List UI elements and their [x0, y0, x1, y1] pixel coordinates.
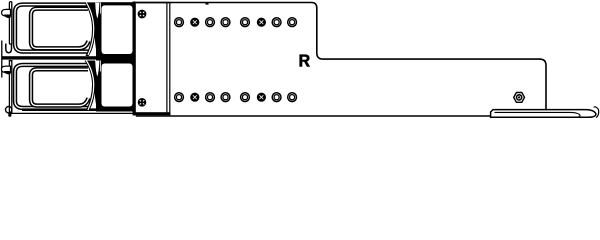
tab T2: [1, 66, 10, 72]
separator band A: [2, 56, 96, 59]
hook H2 (pin lower loop and stub): [6, 107, 12, 113]
filled screw holes bottom: [190, 93, 199, 102]
bottom rail outer: [491, 110, 596, 118]
bracket right edge double line: [166, 2, 167, 115]
tab T1: [2, 9, 11, 16]
bracket screw S2: [137, 98, 146, 107]
handle H1 inner tube: [31, 9, 89, 49]
bracket left edge: [133, 2, 136, 116]
hex nut: [514, 93, 525, 103]
post B1: [85, 3, 102, 57]
chassis bottom line: [136, 115, 491, 117]
bottom thin line left: [11, 112, 134, 114]
plate block lower: [96, 61, 136, 112]
pin P1: [9, 2, 11, 45]
label R: [299, 54, 310, 66]
bottom band left: [22, 108, 97, 111]
pin P2: [9, 61, 11, 113]
bracket bottom edge: [133, 112, 171, 115]
top edge tick: [206, 2, 209, 4]
top hole row: [175, 18, 297, 27]
hook H1 (pin lower U): [6, 44, 12, 53]
handle H2 inner tube: [31, 69, 89, 105]
bottom hole row: [175, 93, 297, 102]
plate block upper: [96, 2, 136, 60]
filled screw holes top: [190, 18, 199, 27]
handle H2 outer tube: [15, 65, 97, 108]
bottom rail inner line: [495, 112, 581, 117]
handle H1 outer tube: [15, 5, 97, 52]
bracket screw S1: [137, 9, 146, 18]
post B2: [85, 61, 102, 112]
left edge line: [1, 41, 3, 78]
rail hook: [594, 107, 599, 118]
bracket top edge: [136, 2, 171, 4]
chassis top outline: [136, 3, 546, 110]
